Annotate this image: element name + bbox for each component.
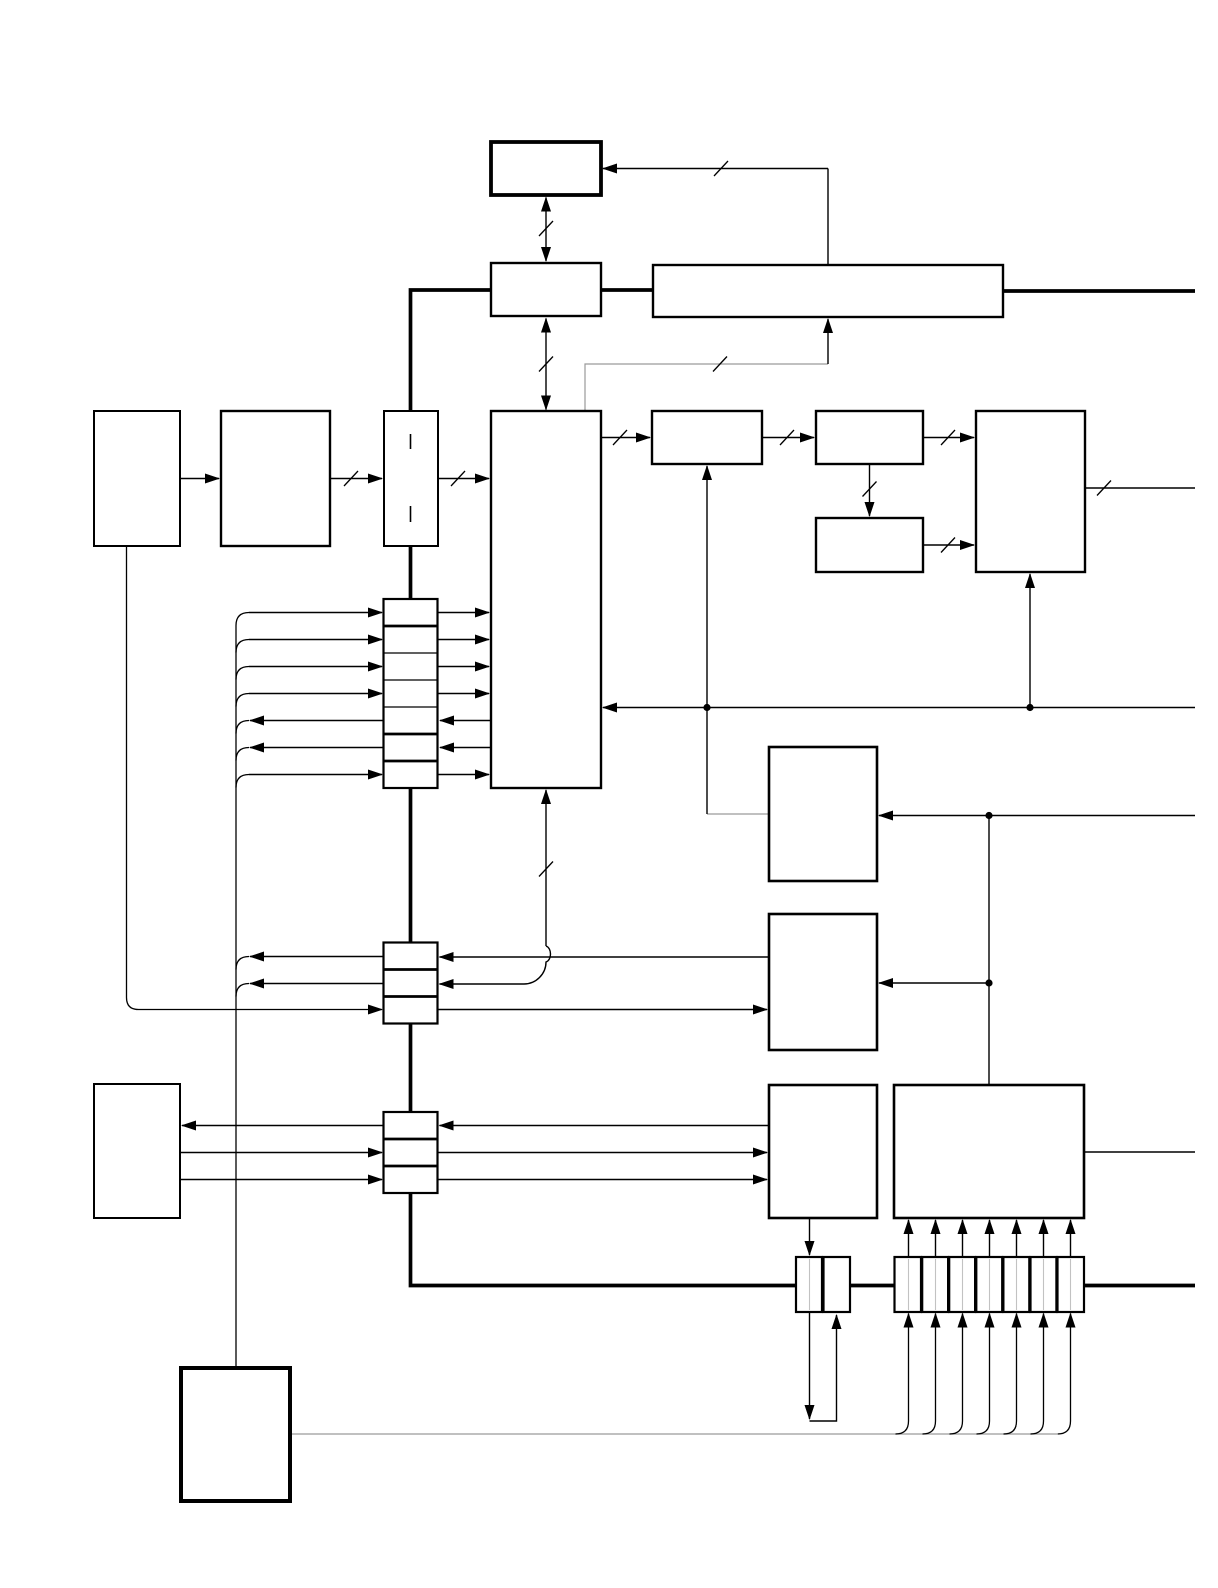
wire: into top display box (arrow left) xyxy=(603,168,828,170)
wire: port cell -> block H (arrow up) xyxy=(962,1220,964,1257)
wire: vertical drop to long register top xyxy=(827,169,829,265)
wire: stack3 cell1 -> left block xyxy=(182,1125,384,1127)
wire: bus between control box and long register xyxy=(601,288,653,292)
stack: bus interface latches (7) xyxy=(384,599,438,788)
wire: block1 -> stack2 cell3 xyxy=(127,546,383,1010)
block: F xyxy=(769,914,877,1050)
wire: gray feedback from core top to long register xyxy=(585,364,828,411)
wire: vertical from E-line down to block H top xyxy=(988,816,990,1086)
bus-width slash xyxy=(780,430,794,445)
wire: port cell -> block H (arrow up) xyxy=(935,1220,937,1257)
wire: up into core bottom (arrow) xyxy=(545,790,547,946)
wire: down from junction to block E level xyxy=(706,708,708,815)
bus-width slash xyxy=(344,471,358,486)
wire: bundle curve xyxy=(236,775,249,788)
block: bottom-left xyxy=(94,1084,180,1218)
wire: bundle -> stack1 (arrow right) xyxy=(249,666,382,668)
wire: core -> stack1 (arrow left) xyxy=(440,747,491,749)
wire: stack2 -> bundle (arrow left) xyxy=(250,956,384,958)
block: B xyxy=(816,411,923,464)
wire: block C -> block D xyxy=(923,544,974,546)
bus-width slash xyxy=(941,538,955,553)
wire: block1 -> block2 xyxy=(180,478,219,480)
block: bus control xyxy=(491,263,601,316)
block: long register xyxy=(653,265,1003,317)
wire: up into block D bottom xyxy=(1029,574,1031,708)
wire: stack1 -> bundle (arrow left) xyxy=(250,720,384,722)
block: G xyxy=(769,1085,877,1218)
wire: fan-out line into port cell (arrow up) xyxy=(1031,1314,1044,1435)
wire: bundle curve xyxy=(236,667,249,680)
wire: fan-out line into port cell (arrow up) xyxy=(923,1314,936,1435)
wire: stack3 -> block G xyxy=(438,1179,768,1181)
wire: latch left cell down (arrow) xyxy=(809,1312,811,1419)
wire: stack3 -> block G xyxy=(438,1152,768,1154)
bus-width slash xyxy=(863,482,877,497)
wire: port cell -> block H (arrow up) xyxy=(1043,1220,1045,1257)
wire: bundle curve xyxy=(236,640,249,653)
block: left input 1 xyxy=(94,411,180,546)
wire: stack2 cell3 -> block F west xyxy=(438,1009,768,1011)
wire: gray fan-out bundle from block I xyxy=(290,1433,1057,1435)
bus-width slash xyxy=(714,161,728,176)
wire: bundle -> stack1 (arrow right) xyxy=(249,693,382,695)
junction node xyxy=(1026,704,1033,711)
wire: port cell -> block H (arrow up) xyxy=(1016,1220,1018,1257)
wire: bundle -> stack1 (arrow right) xyxy=(249,774,382,776)
wire: port cell -> block H (arrow up) xyxy=(908,1220,910,1257)
block: E xyxy=(769,747,877,881)
block: top display (thick) xyxy=(491,142,601,195)
bus-width slash xyxy=(713,357,727,372)
junction node xyxy=(985,979,992,986)
wire: bundle curve xyxy=(236,613,249,626)
wire: port cell -> block H (arrow up) xyxy=(1070,1220,1072,1257)
wire: bundle -> stack1 (arrow right) xyxy=(249,639,382,641)
wire: up into block A bottom xyxy=(706,466,708,708)
wire: gray stub into block E west xyxy=(707,813,769,815)
block: CPU core (tall) xyxy=(491,411,601,788)
wire: left block -> stack3 xyxy=(180,1152,382,1154)
wire: control line into core east (arrow left) xyxy=(603,707,1195,709)
wire: port cell -> block H (arrow up) xyxy=(989,1220,991,1257)
bus-width slash xyxy=(1097,481,1111,496)
bus-width slash xyxy=(613,430,627,445)
wire: block G -> stack3 cell1 xyxy=(440,1125,770,1127)
wire: block D output to right edge xyxy=(1085,487,1195,489)
block: D (tall right) xyxy=(976,411,1085,572)
wire: through port cell (faint) xyxy=(935,1259,937,1310)
wire: block G -> latch pair (down) xyxy=(809,1218,811,1255)
wire: stack1 -> core (arrow right) xyxy=(438,639,490,641)
stack: latches (3) mid xyxy=(384,943,438,1024)
stack: latches (3) low xyxy=(384,1112,438,1193)
wire: through port cell (faint) xyxy=(908,1259,910,1310)
wire: stack1 -> core (arrow right) xyxy=(438,612,490,614)
bus-width slash xyxy=(539,862,553,877)
wire: from right edge into block E east xyxy=(879,815,1195,817)
wire: through port cell (faint) xyxy=(1070,1259,1072,1310)
stack: latch pair (2 cells) xyxy=(796,1257,850,1312)
stack: port cells (7) xyxy=(895,1257,1085,1312)
wire: stack1 -> core (arrow right) xyxy=(438,774,490,776)
wire: bidirectional control box <-> core xyxy=(545,319,547,410)
block: I (thick) xyxy=(181,1368,290,1501)
wire: stack1 -> core (arrow right) xyxy=(438,666,490,668)
wire: arrow up into long register bottom xyxy=(827,319,829,364)
wire: through latch pair left cell (faint) xyxy=(809,1259,811,1310)
wire: divider box -> core xyxy=(438,478,489,480)
wire: left signal bundle vertical xyxy=(235,626,237,1369)
wire: through port cell (faint) xyxy=(1043,1259,1045,1310)
wire: bundle curve xyxy=(236,721,249,734)
block: divider (narrow, dashed marks) xyxy=(384,411,438,546)
wire: core -> stack1 (arrow left) xyxy=(440,720,491,722)
wire: stack2 -> bundle (arrow left) xyxy=(250,983,384,985)
bus-width slash xyxy=(539,221,553,236)
wire: core -> block A xyxy=(601,437,650,439)
wire: fan-out line into port cell (arrow up) xyxy=(1058,1314,1071,1435)
wire: through port cell (faint) xyxy=(962,1259,964,1310)
block: C xyxy=(816,518,923,572)
wire: elbow up into latch right cell xyxy=(810,1315,837,1421)
wire: main data bus (thick) xyxy=(411,290,1196,1286)
wire: left block -> stack3 xyxy=(180,1179,382,1181)
junction node xyxy=(703,704,710,711)
block: left input 2 xyxy=(221,411,330,546)
wire: block A -> block B xyxy=(762,437,814,439)
wire: bidirectional top box <-> control box xyxy=(545,198,547,262)
wire: fan-out line into port cell (arrow up) xyxy=(950,1314,963,1435)
wire: hop curve into stack2 cell2 xyxy=(440,946,551,984)
wire: fan-out line into port cell (arrow up) xyxy=(1004,1314,1017,1435)
wire: block B -> block C (down) xyxy=(869,464,871,516)
wire: block B -> block D xyxy=(923,437,974,439)
wire: block F -> stack2 cell1 xyxy=(440,956,770,958)
wire: fan-out line into port cell (arrow up) xyxy=(896,1314,909,1435)
wire: bundle curve xyxy=(236,984,249,997)
wire: stack1 -> core (arrow right) xyxy=(438,693,490,695)
wire: bus from long register to right edge xyxy=(1003,289,1195,293)
wire: block2 -> divider box xyxy=(330,478,382,480)
wire: bundle -> stack1 (arrow right) xyxy=(249,612,382,614)
wire: bundle curve xyxy=(236,957,249,970)
block: A xyxy=(652,411,762,464)
wire: through port cell (faint) xyxy=(1016,1259,1018,1310)
wire: stack1 -> bundle (arrow left) xyxy=(250,747,384,749)
wire: into block F east xyxy=(879,982,989,984)
wire: bundle curve xyxy=(236,748,249,761)
bus-width slash xyxy=(941,430,955,445)
wire: block H output to right edge xyxy=(1084,1151,1195,1153)
junction node xyxy=(985,812,992,819)
bus-width slash xyxy=(451,471,465,486)
wire: bundle curve xyxy=(236,694,249,707)
wire: through port cell (faint) xyxy=(989,1259,991,1310)
block: H (wide) xyxy=(894,1085,1084,1218)
bus-width slash xyxy=(539,357,553,372)
wire: fan-out line into port cell (arrow up) xyxy=(977,1314,990,1435)
